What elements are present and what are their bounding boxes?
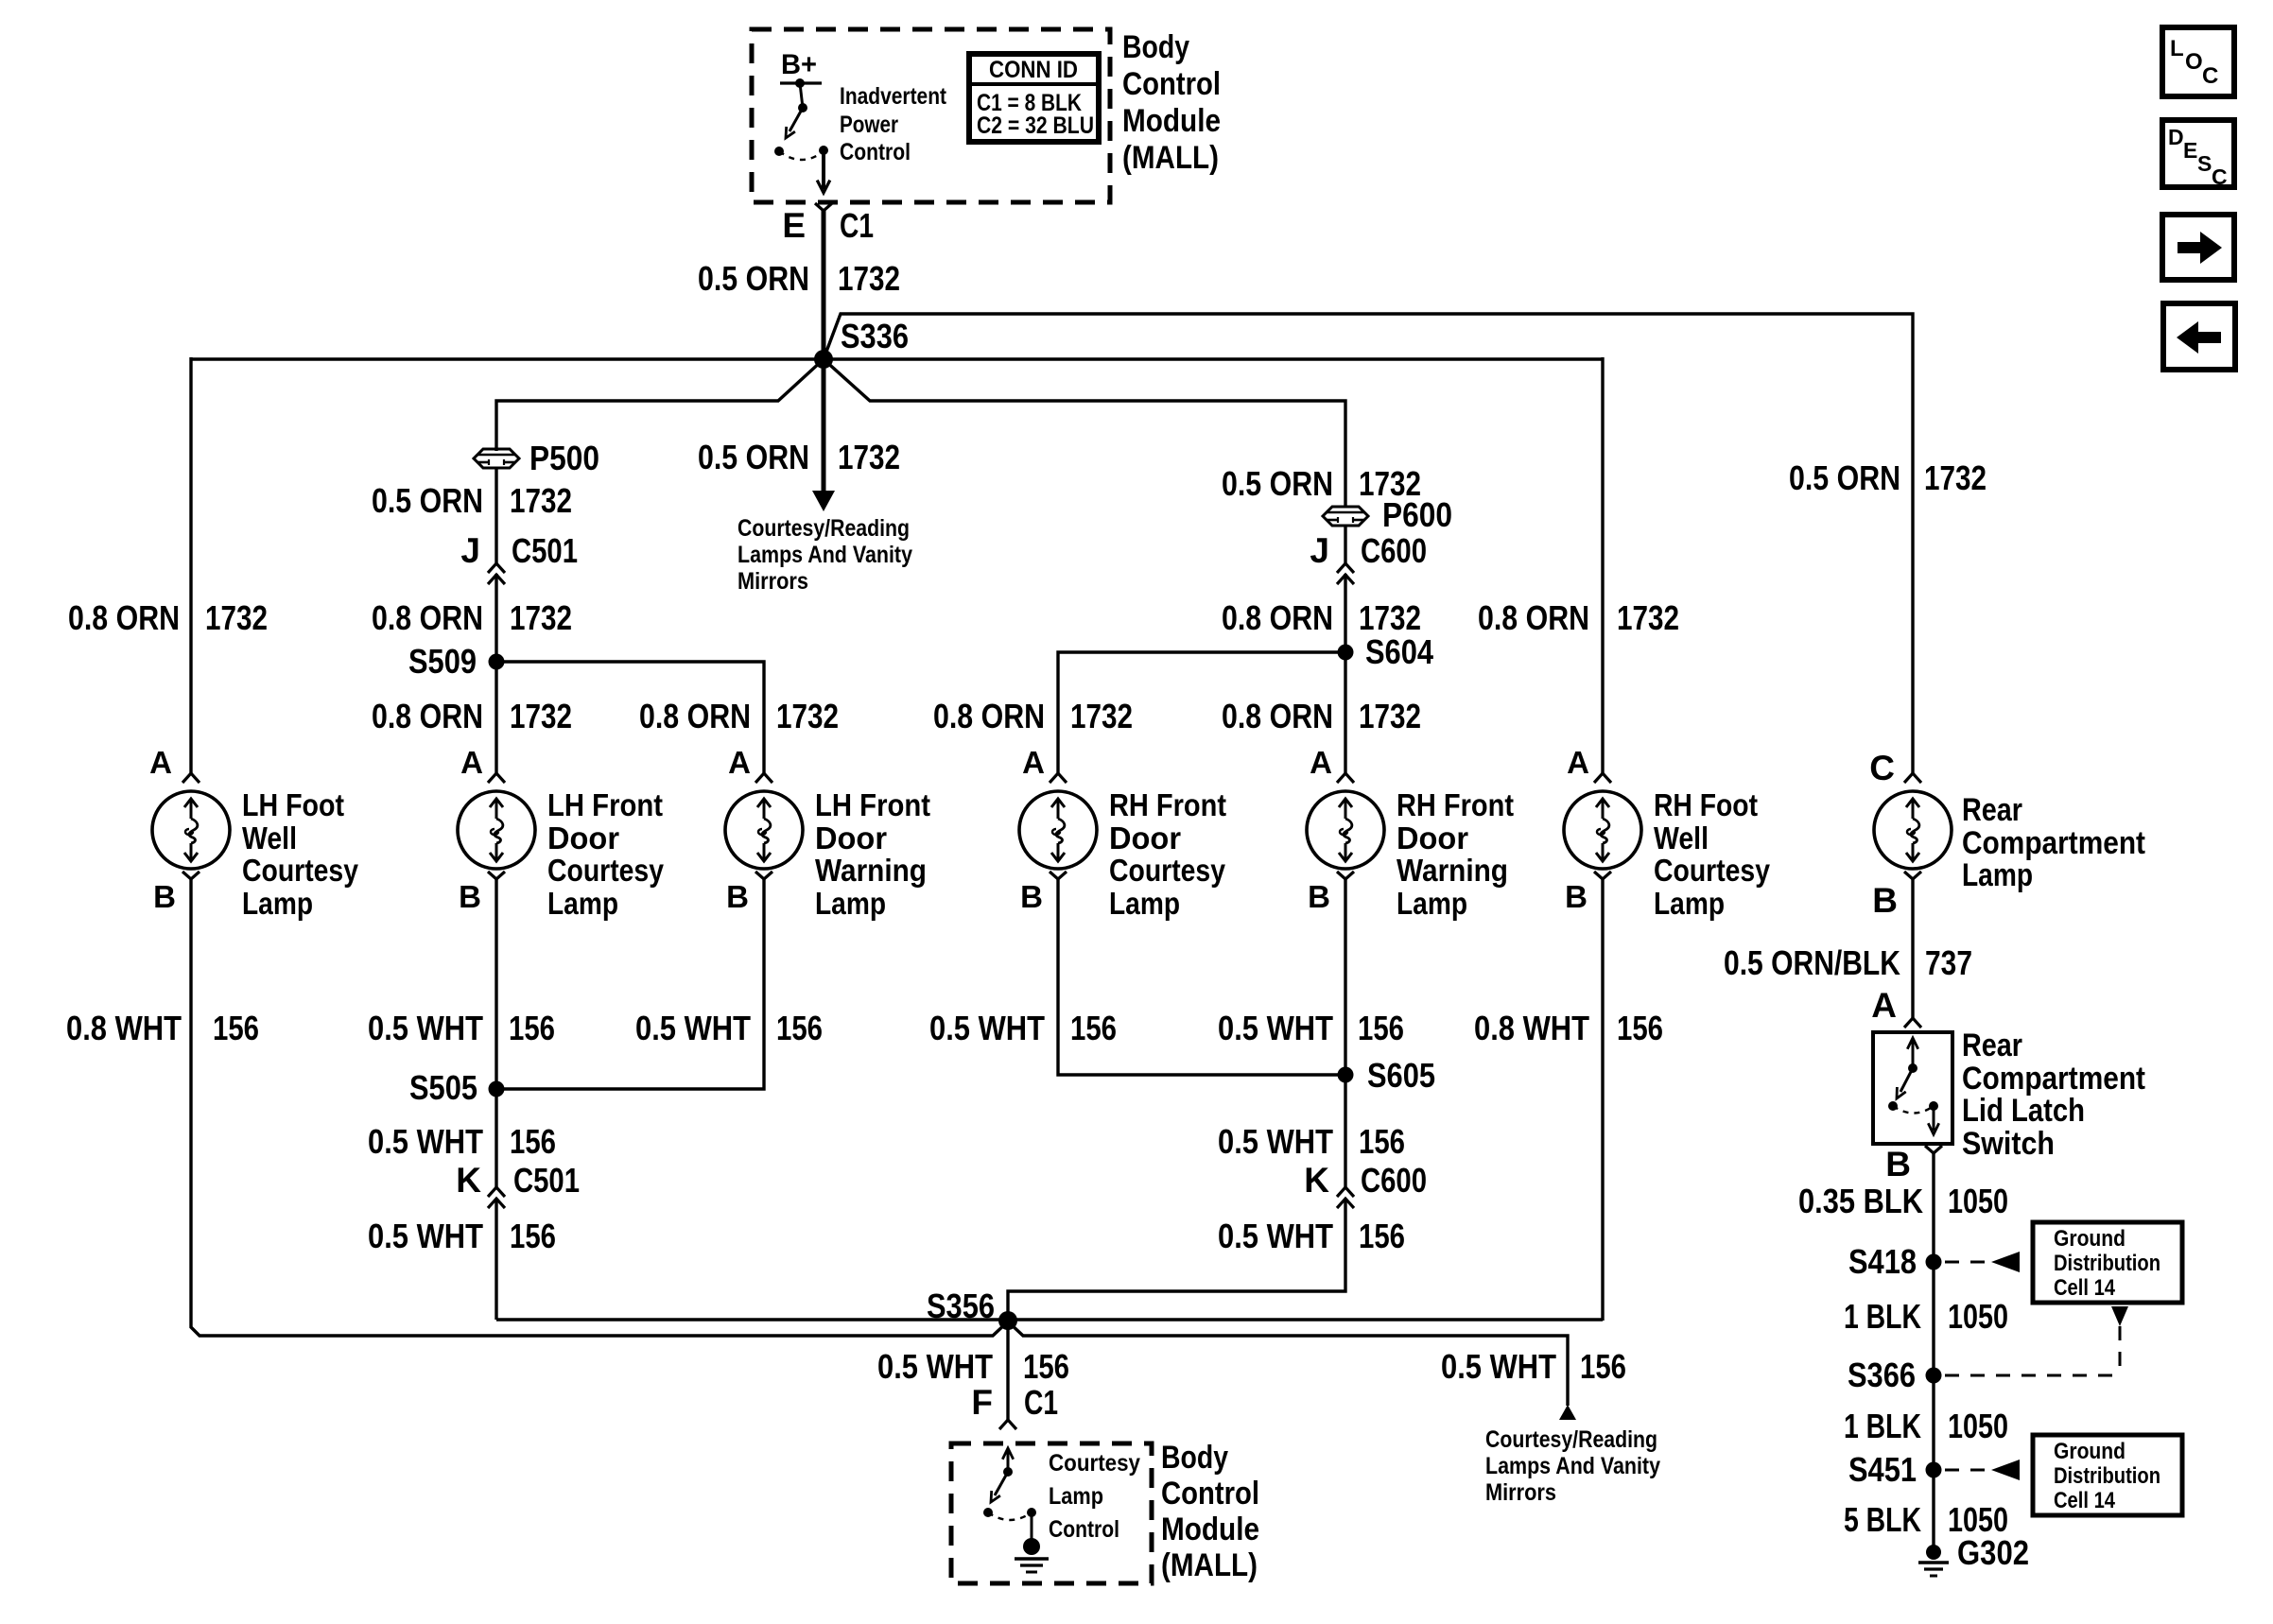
svg-text:Rear: Rear (1962, 1028, 2022, 1063)
svg-text:1732: 1732 (205, 598, 268, 637)
wire label 0.8 ORN 1732 (left column) (68, 598, 268, 637)
splice S605 junction dot (1338, 1067, 1354, 1083)
svg-text:S: S (2197, 151, 2212, 176)
pin label A (lid latch switch) (1871, 986, 1897, 1025)
svg-text:1732: 1732 (510, 481, 572, 520)
svg-text:0.8 ORN: 0.8 ORN (372, 598, 483, 637)
courtesy lamp control left contact dot (983, 1508, 993, 1517)
svg-text:L: L (2170, 36, 2184, 61)
svg-text:Inadvertent: Inadvertent (840, 83, 947, 110)
splice S509 junction dot (489, 654, 505, 670)
courtesy lamp control switch blade with arrow (991, 1472, 1008, 1502)
wire label 0.8 ORN 1732 (S604 to RH door warning lamp) (1222, 697, 1421, 735)
wire label 0.8 ORN 1732 (S604 to RH door courtesy lamp) (933, 697, 1133, 735)
svg-text:A: A (1871, 986, 1897, 1025)
svg-text:B: B (1020, 879, 1043, 914)
wire label 0.8 ORN 1732 (C501 J to S509) (372, 598, 572, 637)
svg-text:Distribution: Distribution (2054, 1251, 2160, 1276)
svg-text:0.5 ORN: 0.5 ORN (698, 259, 809, 298)
svg-text:Control: Control (1161, 1476, 1259, 1512)
svg-text:156: 156 (1359, 1217, 1405, 1255)
svg-text:Mirrors: Mirrors (1485, 1479, 1556, 1506)
svg-text:1732: 1732 (1617, 598, 1679, 637)
wire 156 segment C501 K to S356 through-bus (495, 1199, 497, 1320)
svg-text:C: C (2212, 164, 2228, 189)
connector C501 J double chevron (488, 563, 505, 584)
connector label C1 top (840, 206, 874, 245)
svg-text:Switch: Switch (1962, 1126, 2055, 1162)
svg-text:156: 156 (776, 1009, 823, 1047)
svg-text:Control: Control (1122, 66, 1221, 102)
ground G302 symbol (1918, 1545, 1949, 1576)
svg-text:Distribution: Distribution (2054, 1463, 2160, 1489)
wire label 0.8 ORN 1732 (right column) (1478, 598, 1679, 637)
svg-text:1732: 1732 (838, 438, 900, 476)
wire label 0.5 ORN 1732 (above C501) (372, 481, 572, 520)
svg-text:Power: Power (840, 112, 898, 138)
inadvertent power control right contact dot (819, 146, 828, 155)
power B+ label (781, 49, 817, 80)
node label S418 (1848, 1242, 1917, 1281)
svg-text:0.8 ORN: 0.8 ORN (1222, 697, 1333, 735)
wire 1050 lid latch switch B down to ground G302 (1932, 1153, 1935, 1552)
svg-text:1 BLK: 1 BLK (1844, 1297, 1921, 1336)
svg-text:1732: 1732 (1070, 697, 1133, 735)
svg-text:0.8 ORN: 0.8 ORN (1478, 598, 1589, 637)
svg-text:Ground: Ground (2054, 1439, 2126, 1464)
svg-text:5 BLK: 5 BLK (1844, 1500, 1921, 1539)
svg-text:0.5 WHT: 0.5 WHT (1218, 1217, 1333, 1255)
svg-text:A: A (1022, 745, 1045, 780)
wire label 0.5 WHT 156 (S605 to C600 K) (1218, 1122, 1405, 1161)
svg-text:0.5 ORN: 0.5 ORN (1222, 464, 1333, 503)
svg-text:O: O (2185, 49, 2203, 75)
svg-text:RH Foot: RH Foot (1654, 787, 1758, 822)
svg-text:S356: S356 (927, 1287, 995, 1325)
svg-text:1732: 1732 (838, 259, 900, 298)
pin label J (C501) (460, 531, 480, 570)
svg-text:Body: Body (1161, 1440, 1228, 1476)
wire label 0.35 BLK 1050 (1798, 1182, 2008, 1220)
svg-text:Warning: Warning (815, 853, 927, 888)
connector label C1 bottom (1024, 1383, 1058, 1422)
label Courtesy/Reading Lamps And Vanity Mirrors (center) (737, 515, 912, 595)
label Body Control Module (MALL) top (1122, 29, 1221, 176)
label Inadvertent Power Control (840, 83, 947, 165)
svg-text:A: A (149, 745, 172, 780)
wire 1732 branch S336 down-left to P500 and LH door lamps (496, 359, 824, 451)
svg-text:C600: C600 (1361, 531, 1427, 570)
svg-text:Lamp: Lamp (547, 886, 618, 921)
svg-text:LH Foot: LH Foot (242, 787, 344, 822)
pin label B (LH foot well courtesy lamp) (153, 879, 176, 914)
svg-text:0.5 WHT: 0.5 WHT (368, 1217, 483, 1255)
courtesy lamp control dashed travel arc (988, 1512, 1032, 1520)
svg-text:S604: S604 (1365, 632, 1433, 671)
wire 156 RH front door warning lamp B down through S605 to C600 connector K (1344, 878, 1346, 1187)
pin label C (rear compartment lamp) (1869, 749, 1895, 787)
pin label B (lid latch switch) (1885, 1145, 1911, 1183)
svg-text:0.5 WHT: 0.5 WHT (368, 1009, 483, 1047)
svg-text:156: 156 (510, 1217, 556, 1255)
svg-text:S605: S605 (1367, 1056, 1435, 1095)
svg-text:156: 156 (1617, 1009, 1663, 1047)
svg-text:0.5 WHT: 0.5 WHT (1218, 1122, 1333, 1161)
svg-text:S336: S336 (841, 317, 909, 355)
svg-text:0.5 WHT: 0.5 WHT (929, 1009, 1045, 1047)
label RH front door warning lamp (1397, 787, 1514, 921)
svg-text:RH Front: RH Front (1109, 787, 1226, 822)
connector chevron lid latch switch B (1925, 1146, 1942, 1153)
wire 156 RH foot well lamp B down to S356 bus (1601, 878, 1604, 1321)
svg-text:Well: Well (242, 821, 297, 855)
svg-text:Compartment: Compartment (1962, 1061, 2145, 1097)
svg-text:(MALL): (MALL) (1161, 1547, 1258, 1583)
label Body Control Module (MALL) bottom (1161, 1440, 1259, 1583)
wire label 0.8 WHT 156 (left column) (66, 1009, 259, 1047)
svg-text:C2 = 32 BLU: C2 = 32 BLU (977, 112, 1094, 139)
svg-text:0.8 ORN: 0.8 ORN (933, 697, 1045, 735)
courtesy lamp control switch arrow to pin F (1002, 1448, 1013, 1477)
module box Body Control Module (MALL) bottom (dashed) (951, 1443, 1152, 1583)
module box Body Control Module (MALL) top (dashed) (752, 29, 1110, 202)
wire label 0.5 ORN 1732 (S336 down feed) (698, 438, 900, 476)
pin label A (RH front door courtesy lamp) (1022, 745, 1045, 780)
svg-text:G302: G302 (1957, 1533, 2029, 1572)
wire label 0.5 WHT 156 (RH door warning B) (1218, 1009, 1404, 1047)
svg-text:0.35 BLK: 0.35 BLK (1798, 1182, 1923, 1220)
svg-text:156: 156 (1580, 1347, 1626, 1386)
svg-text:J: J (460, 531, 480, 570)
wire 1732 feed from BCM pin E down to S336 and on to courtesy/reading lamps arrow (thick) (822, 211, 826, 495)
svg-text:Warning: Warning (1397, 853, 1508, 888)
svg-text:B: B (726, 879, 749, 914)
lid latch switch contact lead with down arrow (1928, 1106, 1938, 1134)
node label S451 (1848, 1450, 1917, 1489)
svg-text:Lamp: Lamp (1109, 886, 1180, 921)
wire 156 through horizontal at S356 from LH columns to RH foot well lamp (496, 1318, 1603, 1321)
svg-text:1050: 1050 (1948, 1407, 2008, 1445)
svg-text:156: 156 (1070, 1009, 1117, 1047)
svg-text:Door: Door (1109, 821, 1181, 855)
node label S366 (1848, 1356, 1916, 1394)
svg-text:1050: 1050 (1948, 1297, 2008, 1336)
lid latch switch arrow to pin A (1907, 1038, 1917, 1073)
CONN ID header (989, 57, 1078, 83)
node label S336 (841, 317, 909, 355)
svg-text:0.5 ORN: 0.5 ORN (372, 481, 483, 520)
node label S356 (927, 1287, 995, 1325)
wire label 0.5 ORN 1732 (rear compartment feed) (1789, 458, 1987, 497)
splice S604 junction dot (1338, 645, 1354, 661)
svg-text:0.5 ORN/BLK: 0.5 ORN/BLK (1724, 943, 1900, 982)
svg-text:J: J (1310, 531, 1329, 570)
pin label K (C600) (1304, 1161, 1329, 1200)
wire label 0.5 WHT 156 (C600 K to S356) (1218, 1217, 1405, 1255)
svg-text:C1: C1 (1024, 1383, 1058, 1422)
pin label E (782, 206, 806, 245)
wire 1732 segment C600 J to S604 and on to RH front door warning lamp (1344, 574, 1346, 774)
pin label B (RH foot well courtesy lamp) (1565, 879, 1588, 914)
label Rear Compartment Lamp (1962, 792, 2145, 893)
CONN ID row C2 = 32 BLU (977, 112, 1094, 139)
splice S356 junction dot (998, 1311, 1017, 1330)
node label G302 (1957, 1533, 2029, 1572)
pin label J (C600) (1310, 531, 1329, 570)
off-page arrow to courtesy/reading lamps and vanity mirrors (right) (1559, 1405, 1576, 1420)
svg-text:1732: 1732 (510, 598, 572, 637)
svg-text:C: C (1869, 749, 1895, 787)
svg-text:1732: 1732 (1359, 598, 1421, 637)
B+ terminal bar (780, 78, 822, 88)
label P500 (529, 439, 599, 477)
pin label B (rear compartment lamp) (1872, 881, 1898, 920)
svg-text:1050: 1050 (1948, 1182, 2008, 1220)
inadvertent power control switch blade with arrow (786, 108, 803, 138)
switch box rear compartment lid latch switch (1873, 1032, 1952, 1144)
wire 1732 branch S509 to LH front door warning lamp (496, 662, 764, 774)
svg-text:C1: C1 (840, 206, 874, 245)
svg-text:156: 156 (213, 1009, 259, 1047)
grommet P500 (474, 449, 519, 468)
svg-text:B: B (153, 879, 176, 914)
svg-text:Door: Door (547, 821, 619, 855)
svg-text:E: E (782, 206, 806, 245)
label Ground Distribution Cell 14 (upper) (2054, 1226, 2160, 1301)
svg-text:C501: C501 (512, 531, 578, 570)
svg-text:P600: P600 (1382, 495, 1452, 534)
lamp rear compartment lamp (1874, 773, 1952, 879)
svg-text:Courtesy: Courtesy (242, 853, 359, 888)
svg-text:0.8 ORN: 0.8 ORN (372, 697, 483, 735)
wire 737 rear compartment lamp B to lid latch switch A (1911, 878, 1914, 1020)
wire 156 segment S505 to C501 connector K (495, 1089, 497, 1187)
CONN ID row C1 = 8 BLK (977, 90, 1082, 116)
node label S509 (408, 642, 477, 681)
splice S505 junction dot (489, 1081, 505, 1097)
wire 156 S356 branch to courtesy/reading lamps and vanity mirrors (off-page) (1008, 1322, 1568, 1406)
label Courtesy Lamp Control (1049, 1450, 1140, 1543)
connector chevron lid latch switch A (1904, 1018, 1921, 1028)
svg-text:(MALL): (MALL) (1122, 140, 1219, 176)
svg-text:C501: C501 (513, 1161, 580, 1200)
svg-text:156: 156 (1023, 1347, 1069, 1386)
wire 156 branch S505 to LH front door warning lamp B (496, 878, 764, 1089)
pin label K (C501) (456, 1161, 481, 1200)
svg-text:Module: Module (1122, 103, 1221, 139)
connector C600 K double chevron (1337, 1187, 1354, 1208)
ground lead inside BCM (1031, 1512, 1033, 1541)
label Ground Distribution Cell 14 (lower) (2054, 1439, 2160, 1513)
pin label A (RH front door warning lamp) (1310, 745, 1332, 780)
svg-text:1732: 1732 (776, 697, 839, 735)
wire label 0.5 ORN 1732 (BCM E to S336) (698, 259, 900, 298)
lamp LH foot well courtesy lamp (152, 773, 230, 879)
svg-text:Lamps And Vanity: Lamps And Vanity (737, 542, 912, 568)
wire label 0.5 WHT 156 (S356 to BCM F) (877, 1347, 1069, 1386)
svg-text:LH Front: LH Front (815, 787, 930, 822)
pin label F (971, 1383, 993, 1422)
lid latch switch blade with arrow (1897, 1068, 1913, 1098)
svg-text:0.5 WHT: 0.5 WHT (368, 1122, 483, 1161)
wire label 0.8 ORN 1732 (S509 to LH door courtesy lamp) (372, 697, 572, 735)
label Courtesy/Reading Lamps And Vanity Mirrors (right) (1485, 1426, 1660, 1506)
connector label C600 bottom (1361, 1161, 1427, 1200)
svg-text:156: 156 (509, 1009, 555, 1047)
label LH front door warning lamp (815, 787, 930, 921)
wire label 0.5 WHT 156 (RH door courtesy B) (929, 1009, 1117, 1047)
connector C1 pin E chevron (815, 203, 832, 211)
CONN ID table frame (969, 54, 1099, 142)
svg-text:Lamp: Lamp (1962, 857, 2033, 893)
splice S336 junction dot (814, 350, 833, 369)
svg-text:Ground: Ground (2054, 1226, 2126, 1252)
svg-text:0.8 ORN: 0.8 ORN (639, 697, 751, 735)
svg-text:B: B (1872, 881, 1898, 920)
ground symbol inside BCM (courtesy lamp control) (1015, 1538, 1049, 1572)
svg-text:Compartment: Compartment (1962, 825, 2145, 861)
svg-text:1 BLK: 1 BLK (1844, 1407, 1921, 1445)
svg-text:Lamps And Vanity: Lamps And Vanity (1485, 1453, 1660, 1479)
wire label 0.8 ORN 1732 (S509 to LH door warning lamp) (639, 697, 839, 735)
svg-text:0.5 WHT: 0.5 WHT (877, 1347, 993, 1386)
label LH foot well courtesy lamp (242, 787, 359, 921)
lamp RH foot well courtesy lamp (1564, 773, 1641, 879)
node label S505 (409, 1068, 477, 1107)
svg-text:Lamp: Lamp (815, 886, 886, 921)
svg-text:0.5 ORN: 0.5 ORN (698, 438, 809, 476)
inadvertent power control dashed travel arc (779, 151, 824, 160)
svg-text:A: A (1567, 745, 1589, 780)
svg-text:Courtesy: Courtesy (1654, 853, 1771, 888)
dashed link S418 to ground distribution cell 14 (1945, 1252, 2020, 1272)
wire 1732 segment P600 to C600 connector J (1344, 525, 1346, 564)
inadvertent power control switch pivot (798, 83, 807, 112)
svg-text:0.8 WHT: 0.8 WHT (1474, 1009, 1589, 1047)
connector label C600 top (1361, 531, 1427, 570)
wire 156 S356 down to BCM pin F (1006, 1321, 1009, 1420)
pin label B (RH front door courtesy lamp) (1020, 879, 1043, 914)
svg-text:Lamp: Lamp (1397, 886, 1467, 921)
svg-text:K: K (1304, 1161, 1329, 1200)
wire 1732 branch S336 to rear compartment lamp (diagonal, top horizontal, right drop) (824, 314, 1913, 774)
pin label A (RH foot well courtesy lamp) (1567, 745, 1589, 780)
svg-text:Body: Body (1122, 29, 1189, 65)
svg-text:A: A (460, 745, 483, 780)
svg-text:Lamp: Lamp (242, 886, 313, 921)
svg-text:F: F (971, 1383, 993, 1422)
svg-text:RH Front: RH Front (1397, 787, 1514, 822)
connector C1 pin F chevron (999, 1420, 1016, 1429)
wire 1732 segment P500 to C501 connector J (495, 467, 497, 564)
svg-text:Courtesy/Reading: Courtesy/Reading (737, 515, 910, 542)
svg-text:B+: B+ (781, 49, 817, 80)
svg-text:0.8 ORN: 0.8 ORN (1222, 598, 1333, 637)
grommet P600 (1323, 507, 1368, 526)
splice S366 junction dot (1926, 1368, 1942, 1384)
svg-text:1732: 1732 (1924, 458, 1987, 497)
wire label 0.8 ORN 1732 (C600 J to S604) (1222, 598, 1421, 637)
svg-text:B: B (1565, 879, 1588, 914)
svg-text:Courtesy: Courtesy (547, 853, 665, 888)
wire label 0.5 ORN/BLK 737 (1724, 943, 1972, 982)
svg-text:A: A (728, 745, 751, 780)
pin label A (LH foot well courtesy lamp) (149, 745, 172, 780)
off-page arrow to courtesy/reading lamps and vanity mirrors (center) (812, 491, 835, 511)
splice S418 junction dot (1926, 1254, 1942, 1270)
lid latch switch right contact dot (1929, 1101, 1938, 1111)
svg-text:C600: C600 (1361, 1161, 1427, 1200)
lid latch switch left contact dot (1888, 1101, 1898, 1111)
connector C501 K double chevron (488, 1187, 505, 1208)
lid latch switch dashed travel arc (1893, 1106, 1934, 1114)
svg-text:Courtesy/Reading: Courtesy/Reading (1485, 1426, 1657, 1453)
wire label 0.5 WHT 156 (S505 to C501 K) (368, 1122, 556, 1161)
wire label 0.5 WHT 156 (LH door warning B) (635, 1009, 823, 1047)
svg-text:156: 156 (1359, 1122, 1405, 1161)
icon box DESC (2162, 120, 2234, 189)
box Ground Distribution Cell 14 (upper) (2033, 1222, 2182, 1303)
wire label 0.5 WHT 156 (C501 K to S356) (368, 1217, 556, 1255)
icon box LOC (2162, 27, 2234, 96)
wire 156 RH front door courtesy lamp B down to S605 (1058, 878, 1345, 1075)
svg-text:CONN ID: CONN ID (989, 57, 1078, 83)
svg-text:Control: Control (840, 139, 911, 165)
wire 1732 main horizontal bus from S336 (left arm to LH foot well, right arm to RH foot well) (191, 357, 1603, 360)
svg-text:Lid Latch: Lid Latch (1962, 1093, 2085, 1129)
dashed link S451 to ground distribution cell 14 (1945, 1460, 2020, 1480)
connector label C501 top (512, 531, 578, 570)
icon box arrow right (2162, 215, 2234, 280)
svg-text:0.5 WHT: 0.5 WHT (1441, 1347, 1556, 1386)
svg-text:B: B (459, 879, 481, 914)
svg-text:Mirrors: Mirrors (737, 568, 808, 595)
svg-text:C: C (2202, 63, 2218, 89)
node label S605 (1367, 1056, 1435, 1095)
pin label A (LH front door warning lamp) (728, 745, 751, 780)
svg-text:Cell 14: Cell 14 (2054, 1488, 2116, 1513)
svg-text:LH Front: LH Front (547, 787, 663, 822)
svg-text:Well: Well (1654, 821, 1709, 855)
svg-text:Door: Door (815, 821, 887, 855)
svg-text:Cell 14: Cell 14 (2054, 1275, 2116, 1301)
label P600 (1382, 495, 1452, 534)
courtesy lamp control right contact dot (1027, 1508, 1036, 1517)
svg-text:S509: S509 (408, 642, 477, 681)
wire label 0.8 WHT 156 (right column) (1474, 1009, 1663, 1047)
wire 156 LH front door courtesy lamp B down to S505 (495, 878, 497, 1089)
svg-text:Module: Module (1161, 1512, 1259, 1547)
node label S604 (1365, 632, 1433, 671)
wire 156 segment C600 K down and left to S356 (1008, 1199, 1345, 1322)
pin label B (LH front door courtesy lamp) (459, 879, 481, 914)
label RH foot well courtesy lamp (1654, 787, 1771, 921)
lamp RH front door courtesy lamp (1019, 773, 1097, 879)
connector label C501 bottom (513, 1161, 580, 1200)
wire 1732 branch S604 to RH front door courtesy lamp (1058, 652, 1345, 774)
svg-text:Courtesy: Courtesy (1049, 1450, 1140, 1477)
lamp RH front door warning lamp (1307, 773, 1384, 879)
svg-text:S418: S418 (1848, 1242, 1917, 1281)
inadvertent power control left contact dot (774, 147, 784, 156)
svg-text:Control: Control (1049, 1516, 1119, 1543)
svg-text:737: 737 (1925, 943, 1972, 982)
svg-text:0.8 WHT: 0.8 WHT (66, 1009, 182, 1047)
svg-text:S366: S366 (1848, 1356, 1916, 1394)
label RH front door courtesy lamp (1109, 787, 1226, 921)
svg-text:P500: P500 (529, 439, 599, 477)
dashed link S366 to ground distribution cell 14 with down arrow (1945, 1306, 2128, 1375)
